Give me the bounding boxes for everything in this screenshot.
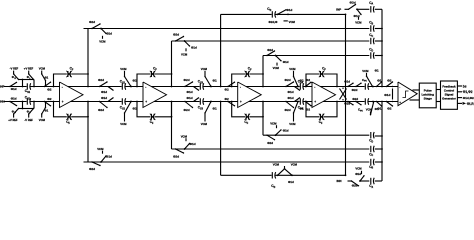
svg-text:Φ1d: Φ1d	[101, 90, 107, 94]
capacitor CF3 bottom with reset switch	[244, 114, 250, 125]
svg-text:Φ2d: Φ2d	[173, 155, 179, 159]
wire output phi1 phi2	[457, 90, 472, 94]
switch phi1 stage2 bottom	[124, 101, 137, 114]
svg-text:Φ1: Φ1	[300, 78, 305, 82]
svg-text:Φ1d: Φ1d	[191, 46, 197, 50]
wire ff bus stage2 bottom	[172, 148, 370, 150]
capacitor Cd bottom	[369, 132, 374, 143]
block feedback control signal generator	[441, 81, 458, 109]
switch ref1 bottom	[12, 108, 19, 115]
capacitor Ca bottom	[369, 178, 374, 189]
switch phi2d bus1 top	[89, 20, 102, 29]
switch phi2d bus4 bottom	[284, 166, 293, 176]
svg-text:REF: REF	[13, 119, 18, 122]
svg-text:Φ2d: Φ2d	[285, 108, 291, 112]
capacitor Cd2 bottom	[271, 172, 275, 189]
switch phi1d out4 top	[344, 79, 353, 87]
wire comparator out bottom	[410, 99, 420, 101]
svg-text:Φ2d: Φ2d	[267, 48, 273, 52]
svg-text:bs: bs	[463, 84, 467, 88]
switch phi1 stage2 top	[124, 76, 137, 88]
svg-text:REF: REF	[13, 68, 18, 71]
svg-text:INN: INN	[0, 100, 5, 104]
svg-text:VCM: VCM	[120, 67, 127, 71]
svg-text:Φ1: Φ1	[213, 78, 218, 82]
switch ref2 top	[27, 73, 34, 80]
switch phi1 stage3 bottom	[204, 101, 217, 114]
svg-text:VCM: VCM	[270, 121, 277, 125]
wire ref merge top	[19, 79, 46, 87]
node INP input label	[0, 85, 5, 89]
svg-text:Φ1d: Φ1d	[287, 8, 293, 12]
svg-text:ΦLR: ΦLR	[467, 102, 474, 106]
capacitor CS1 top	[25, 83, 31, 94]
switch ref2 bottom	[27, 108, 34, 115]
svg-text:VCM: VCM	[39, 67, 46, 71]
svg-text:Φ2d: Φ2d	[184, 108, 190, 112]
svg-text:Φ2: Φ2	[306, 107, 311, 111]
wire feedback top A2	[136, 74, 172, 87]
capacitor Ca top	[369, 1, 374, 13]
svg-text:Φ1d: Φ1d	[283, 60, 289, 64]
capacitor CS1 bottom	[25, 96, 31, 105]
wire summing bus bottom	[375, 101, 383, 181]
wire INN ff line	[360, 180, 369, 182]
svg-text:Φ2: Φ2	[225, 88, 230, 92]
wire VCM INN ff	[355, 166, 362, 174]
svg-text:Φ1d: Φ1d	[288, 96, 294, 100]
wire -VREF stub bottom	[13, 114, 15, 118]
svg-text:-: -	[240, 85, 241, 89]
switch phi1d stage2 bottom label	[101, 96, 114, 102]
capacitor CF3 top with reset switch	[245, 67, 253, 78]
svg-text:Φ1: Φ1	[377, 78, 382, 82]
capacitor Cc bottom	[369, 146, 374, 157]
svg-text:Φ1d: Φ1d	[288, 180, 294, 184]
switch phi1d stage4 top label	[288, 87, 301, 95]
wire ref merge bottom	[19, 102, 46, 110]
wire feedback bottom A2	[136, 101, 172, 117]
svg-text:Φ2d: Φ2d	[98, 108, 104, 112]
svg-text:+: +	[314, 100, 316, 104]
wire ff tap stage2 bottom	[171, 102, 173, 150]
capacitor CF4 bottom with reset switch	[319, 114, 325, 125]
wire VCM node reset top	[362, 68, 379, 87]
switch phi1d cmp shunt	[384, 86, 393, 102]
svg-text:+V: +V	[8, 118, 12, 122]
svg-text:VCM: VCM	[201, 122, 208, 126]
svg-text:REF: REF	[28, 119, 33, 122]
svg-text:Φ1d,Φ2d: Φ1d,Φ2d	[463, 96, 474, 100]
capacitor CF2 bottom with reset switch	[150, 114, 156, 125]
wire VCM bus3 bottom	[270, 121, 277, 128]
wire VCM bus2 bottom	[181, 134, 188, 141]
svg-text:VCM: VCM	[355, 166, 362, 170]
svg-text:VCM: VCM	[97, 147, 104, 151]
wire INN ff input	[337, 179, 352, 183]
switch phi2 cmp top	[386, 78, 393, 87]
svg-text:Φ2d: Φ2d	[285, 78, 291, 82]
switch phi1d bus1 top	[100, 28, 112, 36]
wire VCM bus4 top	[284, 20, 296, 24]
svg-text:-: -	[399, 85, 400, 89]
capacitor Cff top	[362, 78, 369, 90]
switch phi1 stage4 top	[293, 76, 304, 88]
op-amp A3	[238, 82, 262, 108]
svg-text:+: +	[62, 100, 64, 104]
wire feedback bottom A4	[305, 101, 338, 117]
svg-text:Φ2d: Φ2d	[352, 97, 358, 101]
wire comparator out top	[413, 89, 420, 91]
svg-text:-: -	[145, 85, 146, 89]
svg-text:Φ1: Φ1	[375, 68, 379, 72]
svg-text:Φ2d: Φ2d	[89, 167, 95, 171]
svg-text:Φ2d: Φ2d	[173, 33, 179, 37]
wire VCM bus3 top	[273, 63, 280, 70]
wire VCM stub bottom	[41, 114, 43, 118]
switch phi1 cmp top	[376, 78, 382, 87]
switch phi2 pre-A3 top	[225, 82, 236, 92]
svg-text:Φ2d,Φ: Φ2d,Φ	[269, 20, 279, 24]
switch phi1d INN ff	[355, 172, 364, 182]
switch phi2 pre-A4 top	[305, 78, 312, 87]
switch phi1 stage4 bottom	[293, 101, 304, 114]
svg-text:Φ1: Φ1	[133, 106, 138, 110]
wire +VREF stub top	[28, 71, 30, 74]
svg-text:Φ2d: Φ2d	[352, 88, 358, 92]
wire ff bus stage1 top	[84, 28, 370, 30]
wire VCM stub stage3 bottom	[201, 113, 208, 126]
switch cross couple	[340, 88, 347, 101]
svg-text:+: +	[399, 100, 401, 104]
capacitor Cc top	[369, 33, 374, 44]
switch ref3 top	[41, 73, 49, 81]
wire VCM stub stage2 bottom	[120, 113, 127, 126]
switch phi2d stage3 bottom	[184, 101, 194, 112]
wire latch to fcsg top	[436, 89, 440, 91]
svg-text:Φ2: Φ2	[225, 97, 230, 101]
svg-text:+: +	[145, 100, 147, 104]
switch phi2d stage4 bottom	[285, 101, 295, 112]
capacitor CS2 bottom	[120, 98, 126, 110]
switch phi2d stage2 bottom	[98, 101, 108, 112]
svg-text:Φ1d: Φ1d	[11, 87, 17, 91]
switch phi2d INN ff	[351, 180, 361, 188]
svg-text:VCM: VCM	[201, 67, 208, 71]
svg-text:VCM: VCM	[99, 39, 106, 43]
switch ref3 bottom	[41, 107, 49, 115]
capacitor Cff bottom	[358, 98, 369, 112]
switch phi1d INP ff	[354, 9, 362, 18]
switch phi2d bus2 top	[173, 33, 185, 42]
switch phi2 S1 top	[44, 82, 52, 92]
switch phi2 pre-A3 bottom	[225, 97, 236, 106]
node stage1 top a	[22, 86, 24, 88]
switch phi1d bus1 bottom	[100, 154, 112, 162]
capacitor CS4 top	[298, 80, 304, 90]
switch phi1d bus2 top	[184, 40, 197, 49]
switch phi1d S1 bottom	[9, 97, 17, 107]
switch phi2d stage3 top	[184, 78, 194, 87]
switch phi2 cmp bottom	[386, 101, 393, 111]
block pulse latching stage	[419, 83, 436, 108]
wire ff tap input top	[220, 14, 222, 87]
reference labels stage1 top	[10, 67, 46, 71]
svg-text:Φ1d: Φ1d	[384, 93, 390, 97]
capacitor CS2 top	[120, 80, 126, 90]
wire feedback top A3	[231, 74, 264, 87]
wire ff bus stage3 top	[263, 55, 369, 57]
wire VCM bus1 top	[99, 36, 106, 44]
switch phi2d out4 top	[352, 83, 362, 93]
svg-text:VCM: VCM	[362, 69, 369, 73]
switch phi1d bus3 bottom	[275, 128, 289, 136]
capacitor Cd1 top	[267, 7, 275, 17]
svg-text:VCM: VCM	[355, 20, 362, 24]
svg-text:VCM: VCM	[120, 122, 127, 126]
wire VCM stub stage2 top	[120, 67, 127, 77]
switch phi2d bus2 bottom	[173, 148, 185, 159]
wire ff bus stage3 bottom	[263, 134, 369, 136]
wire ff tap stage3 bottom	[262, 102, 264, 136]
switch phi2 S1 bottom	[44, 97, 52, 106]
node sum top	[372, 86, 374, 88]
svg-text:Φ1d: Φ1d	[190, 142, 196, 146]
wire ff bus input top	[221, 13, 346, 15]
svg-text:Φ1d: Φ1d	[187, 90, 193, 94]
op-amp A4	[312, 82, 336, 108]
switch phi2d bus3 top	[266, 48, 276, 56]
capacitor Cb bottom	[369, 159, 374, 170]
switch phi1 cmp bottom	[376, 101, 382, 111]
capacitor CS4 bottom	[298, 98, 304, 110]
capacitor CF1 bottom with reset switch	[66, 114, 72, 125]
svg-text:Φ1d: Φ1d	[283, 128, 289, 132]
svg-text:VCM: VCM	[181, 134, 188, 138]
wire VCM stub stage4 bottom	[289, 113, 296, 126]
node stage1 top b	[33, 86, 35, 88]
svg-text:Φ1: Φ1	[133, 78, 138, 82]
svg-text:Φ1d: Φ1d	[106, 154, 112, 158]
switch phi1d stage2 top label	[101, 87, 114, 95]
svg-text:Φ2d: Φ2d	[267, 141, 273, 145]
node sum bottom	[372, 101, 374, 103]
switch phi2d stage4 top	[285, 78, 295, 87]
wire ff bus stage1 bottom	[84, 161, 370, 163]
svg-text:Φ1d: Φ1d	[101, 96, 107, 100]
svg-text:Φ1d: Φ1d	[288, 90, 294, 94]
switch phi2 pre-A4 bottom	[305, 101, 312, 112]
svg-text:VCM: VCM	[273, 162, 280, 166]
capacitor Cb top	[369, 20, 374, 31]
wire output bs	[457, 84, 466, 88]
svg-text:VCM: VCM	[289, 67, 296, 71]
svg-text:VCM: VCM	[291, 162, 298, 166]
wire VCM stub stage4 top	[289, 67, 296, 77]
capacitor CF4 top with reset switch	[319, 67, 327, 78]
wire ff tap stage2 top	[171, 41, 173, 75]
switch phi2d stage2 top	[98, 78, 108, 87]
switch ref1 top	[12, 73, 19, 80]
switch phi1d stage3 bottom label	[187, 96, 200, 102]
svg-text:Φ1,Φ2: Φ1,Φ2	[463, 90, 473, 94]
svg-text:Φ1: Φ1	[377, 107, 382, 111]
wire VCM bus1 bottom	[97, 147, 104, 154]
wire feedback top A4	[305, 74, 338, 87]
switch phi2d bus1 bottom	[89, 161, 102, 171]
wire ff tap stage1 bottom	[87, 102, 89, 163]
switch phi1d stage4 bottom label	[288, 96, 301, 102]
switch phi1d bus2 bottom	[184, 142, 196, 150]
wire +VREF stub bottom	[28, 114, 30, 118]
wire output phiLR	[457, 102, 474, 106]
svg-text:Φ2d: Φ2d	[89, 20, 95, 24]
wire feedback top A1	[53, 74, 89, 87]
svg-text:INP: INP	[336, 7, 341, 11]
wire VCM stub top	[41, 71, 43, 74]
node stage1 bottom a	[22, 101, 24, 103]
reference labels stage1 bottom	[8, 118, 45, 122]
svg-text:Φ1: Φ1	[45, 76, 49, 80]
switch phi1d S1 top	[9, 82, 17, 91]
svg-text:Φ1: Φ1	[300, 106, 305, 110]
wire -VREF stub top	[13, 71, 15, 74]
svg-text:Φ2d: Φ2d	[352, 184, 358, 188]
svg-text:Φ2: Φ2	[47, 97, 52, 101]
svg-text:Φ1d: Φ1d	[187, 96, 193, 100]
svg-text:Stage: Stage	[424, 97, 433, 101]
svg-text:Φ2: Φ2	[387, 78, 392, 82]
svg-text:Φ1d: Φ1d	[355, 172, 361, 176]
svg-text:Φ2d: Φ2d	[98, 78, 104, 82]
svg-text:Φ1d: Φ1d	[344, 101, 350, 105]
svg-text:Φ2d: Φ2d	[350, 0, 356, 4]
switch phi2d bus3 bottom	[266, 134, 276, 145]
svg-text:-: -	[314, 85, 315, 89]
svg-text:INP: INP	[0, 85, 5, 89]
wire VCM node reset bottom	[366, 102, 379, 116]
svg-text:VCM: VCM	[181, 53, 188, 57]
svg-text:REF: REF	[28, 68, 33, 71]
wire ff bus stage2 top	[172, 40, 370, 42]
switch phi1d stage3 top label	[187, 87, 200, 95]
wire INP rail (top differential signal line)	[4, 86, 398, 88]
wire feedback bottom A1	[53, 101, 89, 117]
svg-text:Generator: Generator	[442, 97, 457, 101]
wire INP ff line	[357, 8, 369, 10]
switch phi1d bus4 bottom	[277, 168, 294, 184]
svg-text:Φ1d: Φ1d	[344, 79, 350, 83]
wire ff tap input bottom	[220, 101, 222, 176]
svg-text:+V: +V	[24, 67, 28, 71]
wire output phi1d phi2d	[457, 96, 474, 100]
node stage1 bottom b	[33, 101, 35, 103]
svg-text:-V: -V	[24, 118, 27, 122]
svg-text:VCM: VCM	[289, 20, 296, 24]
wire ff tap stage1 top	[87, 29, 89, 75]
svg-text:Φ2: Φ2	[306, 78, 311, 82]
svg-text:+: +	[240, 100, 242, 104]
svg-text:-: -	[62, 85, 63, 89]
switch phi1d out4 bottom	[344, 101, 353, 106]
wire feedback bottom A3	[231, 101, 264, 117]
svg-text:-V: -V	[10, 67, 13, 71]
op-amp A1	[60, 82, 84, 108]
switch phi2d out4 bottom	[352, 97, 361, 106]
capacitor CS3 top	[198, 80, 204, 90]
comparator U1	[398, 82, 417, 106]
wire latch to fcsg bottom	[436, 101, 440, 103]
switch phi1d bus4 top	[277, 8, 293, 15]
wire VCM stub stage3 top	[201, 67, 208, 77]
capacitor CF1 top with reset switch	[66, 67, 74, 78]
capacitor Cd top	[369, 47, 374, 58]
wire ff tap stage3 top	[262, 56, 264, 75]
wire VCM bus2 top	[181, 48, 188, 56]
svg-text:Φ1: Φ1	[45, 109, 49, 113]
svg-text:VCM: VCM	[39, 118, 46, 122]
wire INP ff input	[336, 7, 348, 11]
wire INN rail (bottom differential signal line)	[4, 101, 398, 103]
svg-text:Φ2: Φ2	[387, 107, 392, 111]
switch phi1d bus3 top	[275, 55, 289, 64]
switch phi2d INP ff	[348, 0, 358, 10]
wire VCM INP ff	[355, 17, 362, 25]
svg-text:VCM: VCM	[273, 66, 280, 70]
node INN input label	[0, 100, 5, 104]
switch phi1 stage3 top	[204, 76, 217, 88]
wire ff bus input bottom	[221, 174, 346, 176]
svg-text:INN: INN	[337, 179, 342, 183]
switch phi2d bus4 top	[269, 14, 289, 24]
svg-text:Φ2: Φ2	[47, 88, 52, 92]
capacitor CF2 top with reset switch	[150, 67, 158, 78]
capacitor CS3 bottom	[198, 98, 204, 110]
svg-text:VCM: VCM	[289, 122, 296, 126]
wire summing bus top	[375, 9, 383, 87]
wire VCM bus4 bottom	[273, 162, 298, 166]
svg-text:Φ1d: Φ1d	[106, 32, 112, 36]
svg-text:Φ2d: Φ2d	[184, 78, 190, 82]
svg-text:Φ1: Φ1	[213, 106, 218, 110]
op-amp A2	[143, 82, 167, 108]
wire ff riser mid	[345, 14, 347, 177]
svg-text:Φ1d: Φ1d	[11, 97, 17, 101]
